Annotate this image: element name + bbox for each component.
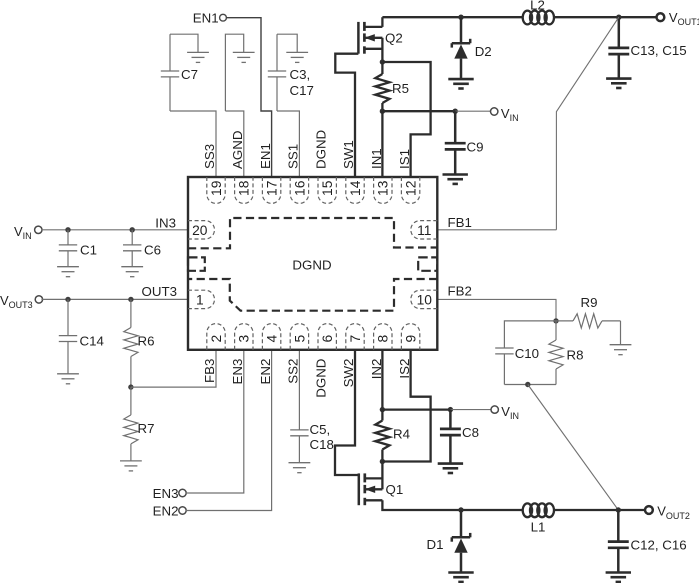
pin 19 pad [207, 177, 225, 203]
node FB2 bottom junction [525, 382, 530, 387]
capacitor C13 C15 [618, 17, 621, 48]
svg-text:C5,: C5, [310, 422, 331, 437]
pin 2 pad [207, 324, 225, 350]
svg-text:FB3: FB3 [202, 359, 217, 383]
capacitor C7 [169, 34, 171, 71]
wire bottom rail [461, 509, 523, 511]
ground C6 [121, 266, 143, 268]
svg-text:SW1: SW1 [341, 140, 356, 169]
svg-text:16: 16 [292, 180, 307, 196]
ground C8 [438, 462, 463, 465]
capacitor C1 [67, 230, 69, 245]
wire FB1 net [437, 229, 556, 231]
svg-text:IS1: IS1 [397, 149, 412, 169]
svg-text:C14: C14 [80, 334, 104, 349]
svg-text:1: 1 [196, 293, 204, 308]
svg-text:5: 5 [292, 334, 307, 342]
pin 6 pad [318, 324, 336, 350]
wire FB1 feedback diagonal [556, 17, 618, 230]
wire FB2 net [437, 299, 556, 321]
svg-text:FB1: FB1 [448, 215, 472, 230]
terminal VOUT2 [645, 506, 653, 514]
svg-text:C3,: C3, [290, 67, 311, 82]
resistor R9 [556, 320, 573, 322]
wire EN2 net [186, 350, 272, 511]
svg-text:L2: L2 [530, 0, 545, 13]
svg-text:C17: C17 [290, 83, 314, 98]
svg-text:IN2: IN2 [369, 359, 384, 380]
svg-text:C9: C9 [467, 140, 484, 155]
node C8 junction [448, 407, 453, 412]
svg-text:R4: R4 [393, 427, 410, 442]
svg-text:19: 19 [209, 180, 224, 196]
svg-text:SS2: SS2 [286, 359, 301, 384]
wire rail to VOUT2 [554, 509, 618, 511]
node C14 junction [65, 297, 70, 302]
capacitor C10 [504, 321, 556, 348]
svg-text:15: 15 [320, 180, 335, 196]
svg-text:FB2: FB2 [448, 283, 472, 298]
ground R7 [120, 460, 142, 462]
svg-text:C7: C7 [181, 67, 198, 82]
wire EN3 net [186, 350, 244, 493]
svg-text:Q2: Q2 [385, 31, 403, 46]
terminal VIN left [35, 226, 42, 233]
svg-text:SS3: SS3 [202, 144, 217, 169]
ground C12 C16 [606, 571, 631, 574]
terminal EN2 [179, 507, 186, 514]
wire rail to VOUT1 [554, 16, 619, 18]
wire top rail [382, 16, 522, 18]
svg-text:C18: C18 [310, 437, 334, 452]
wire IN1 net [381, 111, 383, 177]
terminal VOUT3 [35, 296, 42, 303]
wire IN2 row [382, 408, 450, 410]
svg-text:Q1: Q1 [386, 482, 404, 497]
svg-text:12: 12 [404, 181, 419, 196]
svg-text:D1: D1 [427, 537, 444, 552]
svg-text:C10: C10 [515, 346, 539, 361]
pin 11 pad [411, 221, 437, 239]
svg-text:7: 7 [348, 335, 363, 343]
diode D2 [460, 17, 463, 43]
resistor R7 [130, 387, 132, 415]
svg-text:2: 2 [209, 335, 224, 343]
ground C13 C15 [606, 77, 631, 80]
resistor R4 [381, 410, 383, 421]
capacitor C12 C16 [617, 510, 620, 542]
svg-text:17: 17 [265, 181, 280, 196]
diode D1 [460, 510, 463, 537]
svg-text:11: 11 [417, 223, 431, 238]
wire Q1 drain/body [381, 462, 383, 490]
svg-text:SS1: SS1 [286, 144, 301, 169]
svg-text:C13, C15: C13, C15 [631, 43, 687, 58]
svg-text:EN1: EN1 [258, 143, 273, 169]
node VOUT1 junction [616, 15, 621, 20]
wire FB2 feedback diagonal [528, 385, 619, 511]
svg-text:18: 18 [237, 180, 252, 196]
svg-text:R8: R8 [567, 348, 584, 363]
node FB2 junction [553, 318, 558, 323]
pin 4 pad [262, 324, 280, 350]
svg-text:AGND: AGND [230, 131, 245, 169]
terminal VOUT1 [657, 13, 665, 21]
wire VIN stub bottom [450, 409, 491, 411]
pin 9 pad [401, 324, 419, 350]
ground D2 [448, 78, 473, 81]
wire FB3 net [131, 350, 216, 387]
svg-text:R9: R9 [581, 295, 598, 310]
wire C3 top to ground [277, 34, 297, 52]
wire Q1 source [382, 500, 461, 510]
svg-text:C1: C1 [80, 243, 97, 258]
capacitor C5 C18 [298, 350, 300, 430]
svg-text:OUT3: OUT3 [142, 284, 177, 299]
wire EN1 net [227, 18, 272, 177]
svg-text:EN3: EN3 [153, 486, 179, 501]
svg-text:20: 20 [192, 223, 208, 238]
pin 12 pad [401, 177, 419, 203]
node VOUT2 junction [616, 507, 621, 512]
resistor R8 [555, 321, 557, 340]
svg-text:14: 14 [348, 180, 363, 196]
node R6/R7 junction [128, 384, 133, 389]
ground C3 [286, 51, 308, 53]
svg-text:10: 10 [417, 293, 433, 308]
pin 10 pad [411, 290, 437, 308]
ground C5 C18 [289, 462, 311, 464]
ground D1 [448, 571, 473, 574]
wire IN2 net [381, 350, 383, 410]
terminal VIN bottom [491, 406, 498, 413]
pin 3 pad [235, 324, 253, 350]
capacitor C9 [454, 111, 457, 143]
wire SS3 net [170, 111, 216, 177]
pin 15 pad [318, 177, 336, 203]
wire SW2 gate net [335, 350, 359, 475]
svg-text:L1: L1 [531, 520, 546, 535]
ground C1 [57, 266, 79, 268]
pin 8 pad [374, 324, 392, 350]
svg-text:6: 6 [320, 334, 335, 342]
inductor L1 [523, 503, 532, 517]
wire VIN row [41, 229, 188, 231]
node R4 top [380, 407, 385, 412]
ground AGND [233, 51, 255, 53]
wire Q2 source/body [381, 38, 383, 62]
svg-text:EN2: EN2 [258, 359, 273, 385]
svg-text:13: 13 [376, 180, 391, 196]
svg-text:IN3: IN3 [155, 215, 176, 230]
wire SW1 gate net [335, 54, 358, 177]
pin 7 pad [346, 324, 364, 350]
thermal pad DGND outline [188, 218, 437, 248]
node C6 junction [130, 227, 135, 232]
wire VIN stub top [455, 110, 491, 112]
node C1 junction [65, 227, 70, 232]
svg-text:IN1: IN1 [369, 148, 384, 169]
IC U1 body [188, 177, 437, 350]
wire R9 ground stem [620, 321, 622, 345]
svg-text:D2: D2 [475, 44, 492, 59]
node R5 bottom [380, 109, 385, 114]
capacitor C14 [67, 299, 69, 335]
wire C10-R8 bottom [504, 384, 556, 386]
svg-text:8: 8 [376, 334, 391, 342]
ground C14 [57, 373, 79, 375]
pad via right [418, 257, 437, 270]
svg-text:EN2: EN2 [153, 503, 179, 518]
inductor L2 [523, 11, 532, 25]
pin 18 pad [235, 177, 253, 203]
svg-text:9: 9 [404, 334, 419, 342]
pin 5 pad [290, 324, 308, 350]
node D1 junction [458, 507, 463, 512]
svg-text:IS2: IS2 [397, 359, 412, 379]
node R5 top [380, 59, 385, 64]
pad via left [188, 257, 205, 270]
svg-text:R7: R7 [138, 421, 155, 436]
wire Q2 drain [381, 17, 383, 27]
svg-text:3: 3 [237, 334, 252, 342]
wire AGND net [225, 34, 243, 111]
svg-text:DGND: DGND [292, 257, 331, 272]
ground AGND-C7 [187, 51, 209, 53]
wire C7 top to ground [170, 34, 198, 52]
svg-text:R5: R5 [392, 81, 409, 96]
wire IS2 net [382, 350, 430, 462]
capacitor C3 C17 [276, 34, 278, 71]
svg-text:R6: R6 [138, 334, 155, 349]
transistor Q1 [358, 473, 361, 505]
svg-text:EN1: EN1 [193, 10, 219, 25]
terminal EN1 [220, 14, 227, 21]
pin 16 pad [290, 177, 308, 203]
svg-text:DGND: DGND [313, 359, 328, 398]
pin 1 pad [188, 290, 215, 308]
svg-text:C8: C8 [462, 425, 479, 440]
transistor Q2 [357, 22, 360, 54]
node R4 bottom [380, 459, 385, 464]
resistor R5 [381, 62, 383, 74]
wire SS1 net [277, 111, 299, 177]
ground R9 [610, 344, 632, 346]
svg-text:4: 4 [265, 334, 280, 342]
ground C9 [443, 173, 468, 176]
svg-text:C12, C16: C12, C16 [631, 538, 687, 553]
node R6 top junction [128, 297, 133, 302]
node D2 junction [458, 15, 463, 20]
pin 14 pad [346, 177, 364, 203]
capacitor C6 [131, 230, 133, 245]
wire VOUT3 row [41, 298, 188, 300]
wire IS1 net [382, 62, 430, 177]
capacitor C8 [449, 410, 452, 429]
node C9 junction [453, 109, 458, 114]
svg-text:C6: C6 [144, 243, 161, 258]
terminal EN3 [179, 489, 186, 496]
svg-text:SW2: SW2 [341, 359, 356, 388]
pin 17 pad [262, 177, 280, 203]
pin 20 pad [188, 221, 215, 239]
resistor R6 [130, 299, 132, 327]
svg-text:DGND: DGND [313, 130, 328, 169]
svg-text:EN3: EN3 [230, 359, 245, 385]
terminal VIN top [491, 108, 498, 115]
pin 13 pad [374, 177, 392, 203]
